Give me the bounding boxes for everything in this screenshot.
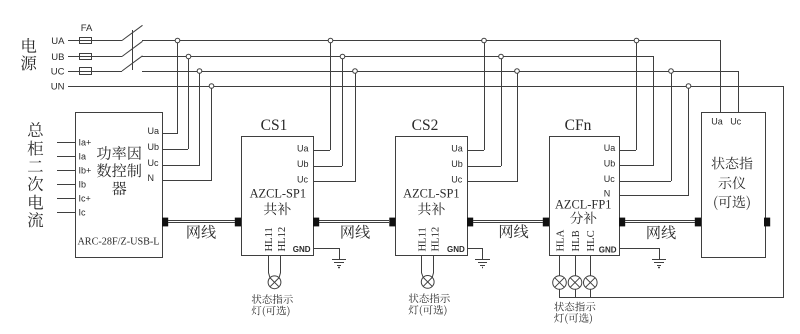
svg-text:Ua: Ua xyxy=(451,143,463,153)
svg-text:HL11: HL11 xyxy=(264,227,275,251)
svg-text:HL12: HL12 xyxy=(430,227,441,252)
svg-text:HLA: HLA xyxy=(555,229,566,251)
svg-text:Uc: Uc xyxy=(297,174,308,184)
svg-text:Ub: Ub xyxy=(297,159,309,169)
svg-text:Uc: Uc xyxy=(451,174,462,184)
svg-text:GND: GND xyxy=(447,245,465,254)
svg-text:UA: UA xyxy=(51,36,65,47)
svg-text:CFn: CFn xyxy=(565,117,592,134)
svg-text:CS1: CS1 xyxy=(261,117,288,134)
svg-text:Ia: Ia xyxy=(79,151,87,161)
svg-text:AZCL-SP1: AZCL-SP1 xyxy=(250,186,306,200)
svg-text:UB: UB xyxy=(51,52,64,63)
svg-text:Ib+: Ib+ xyxy=(79,165,92,175)
svg-text:Uc: Uc xyxy=(148,158,159,168)
svg-text:HL11: HL11 xyxy=(417,227,428,251)
svg-text:Ib: Ib xyxy=(79,179,87,189)
svg-text:GND: GND xyxy=(599,245,617,254)
svg-text:Ic+: Ic+ xyxy=(79,193,91,203)
svg-text:HLB: HLB xyxy=(571,230,582,251)
svg-text:UC: UC xyxy=(51,66,65,77)
svg-text:HL12: HL12 xyxy=(277,227,288,252)
svg-text:GND: GND xyxy=(293,245,311,254)
svg-text:UN: UN xyxy=(51,81,65,92)
svg-text:Ub: Ub xyxy=(451,159,463,169)
svg-text:N: N xyxy=(148,173,155,183)
svg-text:FA: FA xyxy=(81,23,93,34)
svg-text:AZCL-FP1: AZCL-FP1 xyxy=(555,197,611,211)
svg-text:Ic: Ic xyxy=(79,207,87,217)
svg-text:AZCL-SP1: AZCL-SP1 xyxy=(403,186,459,200)
svg-text:Ua: Ua xyxy=(604,143,616,153)
svg-text:HLC: HLC xyxy=(586,230,597,251)
svg-text:Ua: Ua xyxy=(711,116,723,126)
svg-text:Ub: Ub xyxy=(604,158,616,168)
svg-text:ARC-28F/Z-USB-L: ARC-28F/Z-USB-L xyxy=(77,236,159,247)
svg-text:Uc: Uc xyxy=(604,174,615,184)
svg-text:Ia+: Ia+ xyxy=(79,137,92,147)
svg-text:Uc: Uc xyxy=(730,116,741,126)
svg-text:Ua: Ua xyxy=(148,126,160,136)
svg-text:Ua: Ua xyxy=(297,143,309,153)
svg-text:Ub: Ub xyxy=(148,142,160,152)
svg-text:CS2: CS2 xyxy=(412,117,439,134)
